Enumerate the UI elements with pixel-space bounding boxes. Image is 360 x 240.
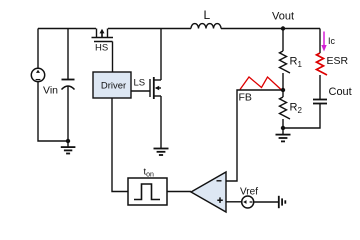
ground under LS (154, 149, 169, 156)
wire top rail from Vin node to HS transistor (38, 28, 96, 30)
wire comparator output to ton (167, 191, 191, 193)
node FB junction dot (281, 88, 285, 92)
svg-text:Cout: Cout (329, 86, 352, 98)
capacitor Cin (input, polarized) (62, 29, 75, 142)
svg-text:Ic: Ic (328, 36, 336, 46)
svg-text:R2: R2 (290, 102, 303, 116)
wire top rail from inductor to Vout corner (221, 28, 320, 30)
node R2/Cout junction dot (281, 126, 285, 130)
wire LS source to ground (160, 96, 162, 148)
wire switch node vertical to LS drain (160, 29, 162, 81)
driver block U1 (93, 72, 131, 98)
ground under R2 (276, 128, 291, 141)
resistor ESR (red) (317, 53, 349, 75)
wire Vout corner down to ESR (319, 29, 321, 54)
resistor R2 (280, 90, 303, 128)
svg-text:ESR: ESR (327, 55, 349, 67)
node Vout junction dot (281, 26, 285, 30)
voltage source Vref (240, 187, 258, 209)
svg-text:Vin: Vin (43, 85, 58, 97)
svg-text:Vref: Vref (240, 187, 258, 198)
wire Vref to ground (254, 201, 279, 203)
wire FB node to comparator minus input (226, 90, 283, 181)
comparator U2 (191, 172, 226, 212)
svg-text:LS: LS (134, 78, 146, 89)
wire ESR to Cout (319, 75, 321, 100)
ripple waveform at FB (red sawtooth) (240, 77, 281, 90)
capacitor Cout (313, 86, 352, 104)
resistor R1 (280, 29, 303, 91)
wire Cout bottom to R2 ground node (283, 104, 320, 129)
node input ground junction dot (66, 139, 70, 143)
ground right of Vref (sideways) (279, 196, 286, 208)
wire top rail from HS to inductor (108, 28, 191, 30)
svg-text:HS: HS (95, 43, 108, 54)
svg-text:FB: FB (239, 92, 252, 104)
wire HS gate to driver (112, 42, 114, 73)
voltage source Vin (31, 29, 68, 142)
one-shot block ton (128, 167, 167, 206)
svg-text:Driver: Driver (101, 81, 126, 92)
svg-text:R1: R1 (290, 56, 303, 70)
inductor L (191, 8, 221, 29)
transistor LS (low-side switch) (134, 77, 162, 99)
ground input section (61, 141, 76, 154)
wire driver output down to ton one-shot (112, 98, 128, 192)
current arrow Ic (321, 32, 335, 52)
transistor HS (high-side switch) (92, 29, 114, 54)
wire comparator plus input to Vref (226, 201, 242, 203)
svg-text:Vout: Vout (272, 11, 294, 23)
svg-text:L: L (204, 8, 211, 22)
wire driver to LS gate (131, 90, 150, 92)
svg-text:ton: ton (144, 167, 155, 179)
